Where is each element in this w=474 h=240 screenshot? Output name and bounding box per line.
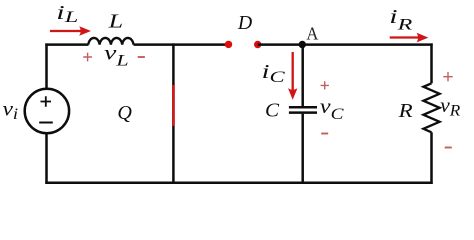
capacitor C <box>289 107 317 112</box>
wire right vertical bottom <box>430 132 433 184</box>
node A <box>299 41 306 48</box>
switch D contact dot right <box>254 41 261 48</box>
svg-text:L: L <box>107 11 123 33</box>
wire left vertical top <box>45 43 48 89</box>
current arrow iL <box>50 26 91 36</box>
svg-text:D: D <box>237 12 253 34</box>
current arrow iC <box>288 52 297 100</box>
switch D contact dot left <box>225 41 232 48</box>
wire left vertical bottom <box>45 133 48 184</box>
svg-text:R: R <box>398 100 413 122</box>
wire capacitor branch top <box>301 45 304 107</box>
wire bottom <box>45 182 432 185</box>
resistor R <box>423 83 439 132</box>
wire top-left horizontal <box>45 43 88 46</box>
voltage source Vi <box>25 89 69 133</box>
inductor L <box>88 38 133 45</box>
svg-text:A: A <box>306 23 318 43</box>
wire top right <box>258 43 433 46</box>
wire top middle <box>134 43 229 46</box>
wire right vertical top <box>430 43 433 83</box>
wire Q branch vertical <box>172 43 175 183</box>
switch Q red segment <box>172 85 175 126</box>
wire capacitor branch bottom <box>301 114 304 184</box>
label +vC- <box>320 81 344 133</box>
current arrow iR <box>390 33 429 43</box>
label +vL- <box>83 43 145 70</box>
svg-text:C: C <box>265 100 280 122</box>
label +vR- <box>440 72 460 148</box>
svg-text:Q: Q <box>117 102 132 124</box>
